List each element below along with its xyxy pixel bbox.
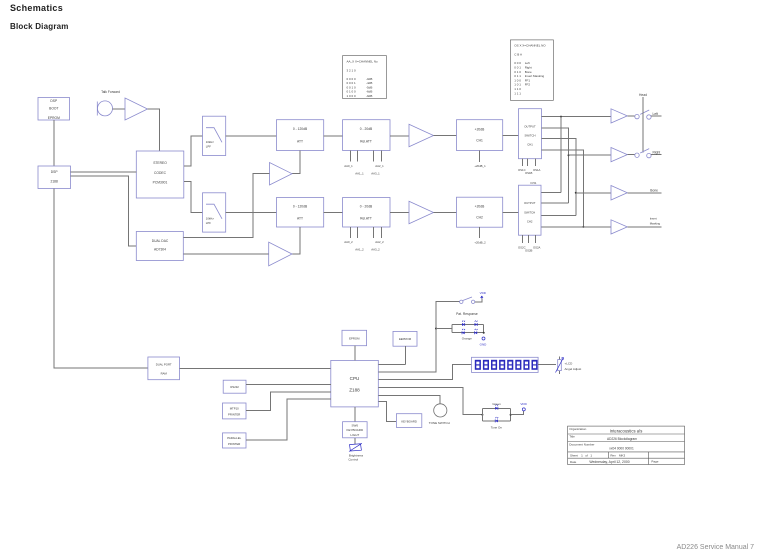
switch left lever	[640, 110, 649, 114]
LED D5 green top	[495, 407, 498, 410]
wire bone bus to bone amp	[576, 192, 611, 194]
svg-text:Document Number: Document Number	[569, 443, 594, 447]
svg-text:EPROM: EPROM	[349, 336, 360, 340]
svg-text:Sheet 1 of 1: Sheet 1 of 1	[570, 453, 592, 457]
svg-text:0 - 20dB: 0 - 20dB	[360, 127, 373, 131]
box PARALLEL PRINTER	[223, 433, 247, 448]
box MTP10 PRINTER	[223, 403, 247, 419]
switch patient response contact 1	[460, 300, 463, 303]
svg-text:VDD: VDD	[480, 291, 487, 295]
op-amp wobble channel 2	[269, 242, 292, 266]
svg-text:LPF: LPF	[206, 144, 211, 148]
svg-text:DSP: DSP	[51, 170, 59, 174]
wire LPF1 to ATT1	[226, 135, 277, 137]
svg-text:KEYBOARD: KEYBOARD	[401, 419, 417, 423]
svg-text:Title: Title	[569, 435, 575, 439]
svg-text:RS232: RS232	[230, 385, 239, 389]
wire PARALLEL PRINTER to CPU	[246, 399, 331, 440]
svg-text:xx04 0000 00001: xx04 0000 00001	[609, 447, 634, 451]
svg-text:EPROM: EPROM	[48, 116, 60, 120]
table OS output switch codes	[510, 40, 553, 100]
heading Block Diagram	[10, 22, 69, 31]
svg-text:DSP: DSP	[50, 99, 58, 103]
op-amp left output	[611, 109, 627, 123]
op-amp insert masking output	[611, 220, 627, 234]
svg-text:+20dB_1: +20dB_1	[474, 164, 486, 168]
wire amp to switch right	[627, 154, 634, 156]
wire ATT1 to RelATT1	[324, 135, 343, 137]
svg-text:AA2_1: AA2_1	[375, 164, 384, 168]
svg-text:3 2 1 0: 3 2 1 0	[347, 69, 357, 73]
pin OS2B	[525, 235, 533, 253]
svg-text:Rev MK3: Rev MK3	[610, 453, 625, 457]
pin +20dB_1	[474, 151, 486, 169]
pin AA0_2	[344, 227, 353, 244]
svg-text:MTP10: MTP10	[230, 407, 239, 411]
svg-text:OS1B: OS1B	[525, 171, 533, 175]
gain block +20dB CH1	[457, 120, 503, 151]
wire CH1 switch out C to bone bus	[542, 139, 576, 216]
svg-text:EEPROM: EEPROM	[399, 337, 412, 341]
pin +20dB_2	[474, 227, 486, 244]
box SW6 KEYBOARD LIGHT	[343, 422, 368, 438]
svg-text:Wednesday, April 12, 2000: Wednesday, April 12, 2000	[589, 460, 629, 464]
svg-text:IC51: IC51	[531, 181, 537, 185]
wire LPF2 to ATT2	[226, 212, 277, 214]
wire switch to VDD	[475, 299, 482, 302]
svg-text:+20dB: +20dB	[475, 205, 485, 209]
pin OS1C	[518, 159, 526, 172]
pin AA3_2	[371, 227, 381, 252]
svg-text:Left: Left	[653, 112, 659, 116]
svg-text:Green: Green	[492, 402, 501, 406]
wire codec to LPF1	[184, 136, 203, 166]
pin AA3_1	[371, 151, 381, 176]
output switch CH1	[519, 109, 542, 159]
LED D2 orange top-right	[475, 323, 478, 326]
svg-text:Page: Page	[651, 460, 658, 464]
svg-text:Date: Date	[570, 460, 577, 464]
pin AA2_1	[373, 151, 384, 169]
ground GND patient response	[482, 337, 485, 340]
wire DSP to codec	[71, 171, 137, 173]
box RS232	[223, 380, 246, 393]
wire MTP10 to CPU	[246, 392, 331, 411]
LED D3 orange bottom-left	[462, 331, 465, 334]
svg-text:STEREO: STEREO	[153, 161, 167, 165]
wire junction to LED block	[436, 328, 452, 330]
wire CPU to keyboard	[378, 402, 396, 422]
svg-text:LIGHT: LIGHT	[350, 433, 359, 437]
title block	[568, 426, 685, 464]
svg-text:Masking: Masking	[650, 222, 661, 226]
wire +20dB CH2 to output switch CH2	[503, 212, 519, 214]
output switch CH2	[519, 185, 542, 235]
title block text	[569, 427, 658, 464]
svg-text:KEYBOARD: KEYBOARD	[346, 428, 364, 432]
svg-text:SWITCH: SWITCH	[524, 134, 535, 138]
svg-text:GND: GND	[480, 342, 488, 346]
wire RelATT2 to amp	[390, 212, 409, 214]
svg-text:Rel.ATT: Rel.ATT	[360, 140, 372, 144]
node junction tone on right	[510, 414, 512, 416]
switch patient response contact 2	[471, 300, 474, 303]
wire mic to amp	[113, 108, 126, 110]
svg-text:CPU: CPU	[350, 376, 360, 381]
pin OS1B	[525, 159, 533, 176]
svg-text:AA0_2: AA0_2	[344, 240, 353, 244]
lamp brightness control	[349, 443, 362, 451]
op-amp wobble channel 1	[270, 163, 293, 186]
svg-text:PARALLEL: PARALLEL	[227, 436, 241, 440]
wire left bus vertical	[560, 117, 562, 193]
svg-text:OS2B: OS2B	[525, 249, 533, 253]
filter 10kHz LPF channel 1	[203, 116, 226, 155]
svg-text:Right: Right	[653, 151, 661, 155]
box CPU Z188	[331, 360, 379, 407]
wire CH2 switch out A to left bus	[541, 191, 561, 193]
svg-text:AA2_2: AA2_2	[375, 240, 384, 244]
svg-text:Bone: Bone	[650, 188, 658, 192]
svg-text:Interacoustics a/s: Interacoustics a/s	[610, 428, 643, 433]
wire insert output	[627, 226, 661, 228]
LED block patient response rails	[452, 325, 484, 333]
svg-text:Organization: Organization	[569, 427, 586, 431]
wire RelATT1 to amp	[390, 135, 409, 137]
power VDD tone on	[522, 408, 525, 411]
wire ATT1 bottom pin to wobble amp 1	[292, 151, 300, 174]
microphone M1	[97, 101, 112, 116]
wire left output	[651, 115, 662, 117]
wire amp to switch left	[627, 115, 634, 117]
pin OS2C	[518, 235, 526, 249]
wire EEPROM to CPU	[378, 346, 405, 364]
LED D6 green bottom	[495, 419, 498, 422]
node junction patient response LEDs	[435, 328, 437, 330]
box DSP BOOT EPROM U10	[38, 98, 70, 121]
svg-text:AA1_2: AA1_2	[355, 248, 364, 252]
svg-text:Tone On: Tone On	[491, 425, 503, 429]
wire CH1 switch out A to Left bus and left amp	[542, 116, 612, 118]
attenuator 0-20dB Rel.ATT channel 1	[343, 120, 390, 151]
svg-text:Insert: Insert	[650, 217, 657, 221]
box KEYBOARD	[396, 414, 421, 428]
wire right output	[651, 154, 662, 156]
svg-text:CODEC: CODEC	[154, 171, 167, 175]
wire CPU to SW6 keyboard light	[354, 407, 356, 422]
wire RAM to CPU	[180, 367, 331, 369]
wire codec to LPF2	[184, 181, 203, 212]
svg-text:SW6: SW6	[352, 424, 359, 428]
wire CPU to tone on LEDs	[378, 387, 482, 414]
svg-text:PRINTER: PRINTER	[228, 442, 240, 446]
svg-text:1 1 1: 1 1 1	[514, 91, 521, 95]
LED D4 orange bottom-right	[475, 331, 478, 334]
attenuator 0-120dB ATT channel 1	[277, 120, 324, 151]
wire DSP boot eprom to DSP	[53, 120, 55, 166]
switch left contact 2	[647, 115, 651, 119]
svg-text:CH2: CH2	[476, 216, 483, 220]
svg-text:OS2A: OS2A	[533, 245, 541, 249]
svg-text:VDD: VDD	[520, 402, 527, 406]
pin AA2_2	[373, 227, 384, 244]
pin OS2A	[533, 235, 541, 249]
svg-text:OS1A: OS1A	[533, 168, 541, 172]
switch right contact 1	[635, 153, 639, 157]
wire DSP to dual DAC	[71, 176, 137, 246]
svg-text:DUAL DAC: DUAL DAC	[152, 239, 169, 243]
svg-text:Angel Adjust: Angel Adjust	[565, 367, 582, 371]
node junction right bus	[568, 154, 570, 156]
wire RS232 to CPU	[246, 384, 331, 386]
svg-text:OS X X=CHANNEL NO: OS X X=CHANNEL NO	[514, 44, 546, 48]
pin OS1A	[533, 159, 541, 172]
switch left contact 1	[635, 114, 639, 118]
svg-text:+LCD: +LCD	[565, 362, 574, 366]
svg-text:2188: 2188	[51, 180, 59, 184]
LED D1 orange top-left	[462, 323, 465, 326]
svg-text:0 - 120dB: 0 - 120dB	[293, 127, 308, 131]
svg-text:10kHz: 10kHz	[206, 216, 215, 220]
pin AA0_1	[344, 151, 353, 169]
svg-text:SWITCH: SWITCH	[524, 210, 535, 214]
wire ATT2 to RelATT2	[324, 212, 343, 214]
svg-text:OUTPUT: OUTPUT	[524, 201, 536, 205]
wire SW6 to lamp	[354, 438, 356, 444]
wire CPU to patient response switch	[378, 302, 459, 373]
svg-text:CH2: CH2	[527, 219, 533, 223]
wire amp to codec	[148, 109, 160, 151]
op-amp bone output	[611, 186, 627, 201]
wire tone on to VDD	[511, 411, 524, 415]
svg-text:OUTPUT: OUTPUT	[524, 125, 536, 129]
svg-text:TONE SWITCH: TONE SWITCH	[429, 421, 450, 425]
svg-text:C B A: C B A	[514, 53, 522, 57]
wire CPU to tone switch	[378, 395, 440, 403]
filter 10kHz LPF channel 2	[203, 193, 226, 232]
wire DAC out1 to wobble amp 1	[183, 174, 269, 238]
pin AA1_1	[355, 151, 364, 176]
wire CH2 switch out C to bone bus	[541, 215, 576, 217]
wire DSP to dual port RAM	[54, 189, 148, 369]
svg-text:Orange: Orange	[462, 336, 472, 340]
wire amp to +20dB CH2	[434, 212, 457, 214]
svg-text:PRINTER: PRINTER	[228, 413, 240, 417]
attenuator 0-120dB ATT channel 2	[277, 198, 324, 228]
LED block tone on rails	[482, 408, 510, 421]
box DUAL PORT RAM	[148, 357, 180, 380]
wire CH2 switch out D to insert amp	[541, 226, 611, 228]
box EEPROM	[393, 331, 417, 346]
op-amp channel 2 buffer	[409, 201, 434, 224]
switch right lever	[640, 149, 649, 153]
wire ATT2 bottom pin to wobble amp 2	[292, 227, 300, 254]
svg-text:PCM3001: PCM3001	[153, 181, 168, 185]
svg-text:1 0 0 0: 1 0 0 0	[347, 94, 357, 98]
svg-text:Talk Forward: Talk Forward	[101, 90, 120, 94]
svg-text:AD226 Blockdiagram: AD226 Blockdiagram	[607, 437, 637, 441]
switch patient response lever	[463, 297, 472, 301]
potentiometer LCD angle adjust	[556, 357, 564, 374]
svg-text:10kHz: 10kHz	[206, 140, 215, 144]
svg-text:Rel.ATT: Rel.ATT	[360, 217, 372, 221]
op-amp talk forward amp	[125, 98, 148, 120]
svg-text:LPF: LPF	[206, 221, 211, 225]
svg-text:ATT: ATT	[297, 217, 303, 221]
box DSP 2188	[38, 166, 71, 189]
wire right bus to right amp	[569, 154, 612, 156]
switch right contact 2	[647, 153, 651, 157]
wire CH1 switch out B to right bus	[542, 128, 569, 203]
node junction LED block right	[483, 332, 485, 334]
wire head gang line	[642, 97, 644, 153]
heading Schematics	[10, 3, 63, 13]
svg-text:AA_X X=CHANNEL No: AA_X X=CHANNEL No	[347, 60, 378, 64]
wire EPROM to CPU	[354, 346, 356, 361]
wire +20dB CH1 to output switch CH1	[503, 135, 519, 137]
svg-text:-9dB: -9dB	[366, 94, 372, 98]
svg-text:AA1_1: AA1_1	[355, 172, 364, 176]
svg-text:Z188: Z188	[349, 388, 360, 393]
svg-text:0 - 20dB: 0 - 20dB	[360, 205, 373, 209]
box EPROM	[342, 330, 367, 345]
svg-text:ATT: ATT	[297, 140, 303, 144]
svg-text:AD7304: AD7304	[154, 248, 166, 252]
gain block +20dB CH2	[457, 197, 503, 227]
wire CH2 switch out B to right bus	[541, 202, 569, 204]
svg-text:RAM: RAM	[161, 372, 168, 376]
op-amp channel 1 buffer	[409, 124, 434, 147]
attenuator 0-20dB Rel.ATT channel 2	[343, 198, 390, 228]
svg-text:+20dB: +20dB	[475, 128, 485, 132]
node junction bone bus	[575, 192, 577, 194]
svg-text:FF2: FF2	[525, 83, 531, 87]
svg-text:AA0_1: AA0_1	[344, 164, 353, 168]
box DUAL DAC AD7304	[136, 232, 183, 261]
svg-text:Pat. Response: Pat. Response	[456, 312, 478, 316]
wire bone output	[627, 192, 661, 194]
wire DAC out2 to wobble amp 2	[183, 253, 268, 255]
svg-text:CH1: CH1	[476, 139, 483, 143]
svg-text:0 - 120dB: 0 - 120dB	[293, 205, 308, 209]
node junction left bus	[560, 116, 562, 118]
power VDD arrow	[481, 296, 483, 299]
svg-text:AA3_1: AA3_1	[371, 172, 380, 176]
node junction tone on left	[481, 414, 483, 416]
svg-text:CH1: CH1	[527, 143, 533, 147]
op-amp right output	[611, 148, 627, 162]
svg-text:Control: Control	[348, 458, 358, 462]
display LCD 8 digit	[472, 357, 539, 372]
svg-text:+20dB_2: +20dB_2	[474, 241, 486, 245]
node junction insert bus	[582, 226, 584, 228]
switch tone switch button	[434, 404, 447, 417]
box STEREO CODEC PCM3001	[136, 151, 184, 198]
svg-text:AA3_2: AA3_2	[371, 248, 380, 252]
svg-text:BOOT: BOOT	[49, 107, 58, 111]
wire CPU to display	[378, 364, 471, 379]
wire amp to +20dB CH1	[434, 135, 457, 137]
wire display to potentiometer	[538, 364, 556, 366]
svg-text:DUAL PORT: DUAL PORT	[156, 363, 172, 367]
svg-text:Head: Head	[639, 93, 647, 97]
table AA attenuator codes	[343, 56, 387, 99]
pin AA1_2	[355, 227, 364, 252]
footer page label	[677, 544, 754, 551]
wire CH1 switch out D to insert bus	[542, 150, 584, 227]
